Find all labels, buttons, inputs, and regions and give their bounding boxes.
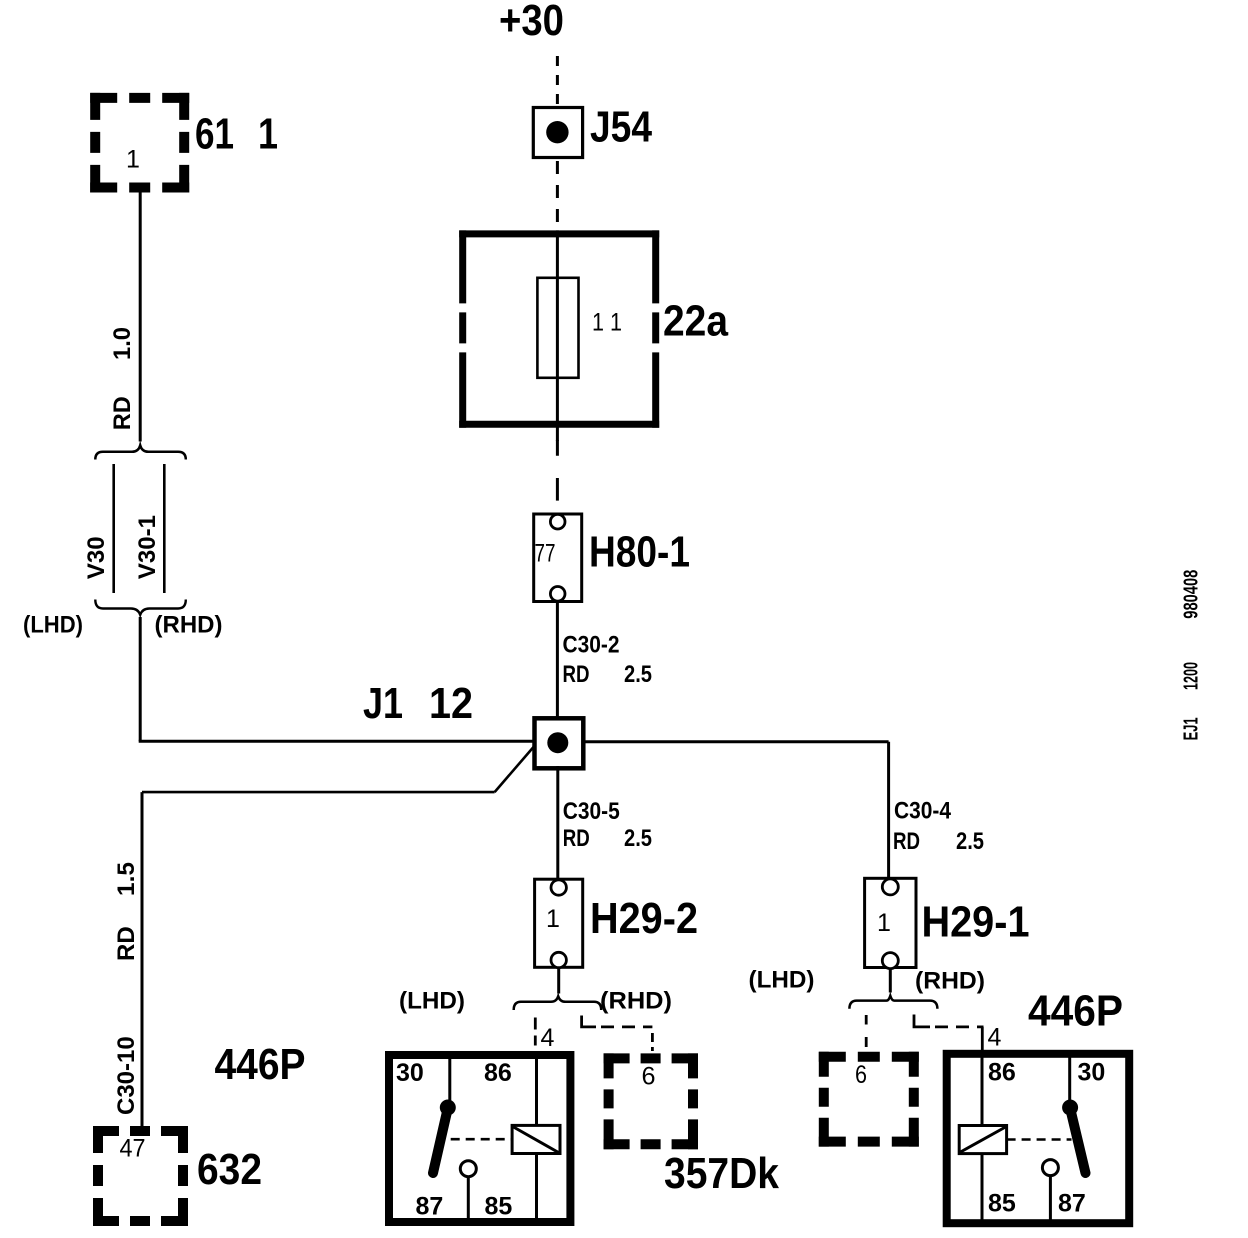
variant line V30 bbox=[112, 464, 115, 593]
wire down to 632 bbox=[141, 792, 144, 1126]
relay left coil lead top bbox=[535, 1053, 538, 1125]
svg-text:446P: 446P bbox=[1028, 987, 1123, 1036]
svg-text:4: 4 bbox=[541, 1024, 555, 1052]
wire horizontal J1 to right bbox=[583, 740, 889, 743]
wire dashed into left relay pin 4 bbox=[534, 1018, 537, 1051]
relay right contact circle bbox=[1042, 1160, 1058, 1176]
svg-text:1: 1 bbox=[877, 909, 891, 937]
label J1 12 bbox=[363, 679, 473, 728]
component 6 box left (357Dk, dashed) bbox=[604, 1053, 698, 1149]
svg-text:(RHD): (RHD) bbox=[155, 612, 223, 639]
svg-text:22a: 22a bbox=[663, 297, 728, 346]
fuse element 11 bbox=[537, 278, 578, 378]
svg-text:1200: 1200 bbox=[1181, 662, 1203, 690]
svg-text:H29-1: H29-1 bbox=[922, 898, 1030, 947]
wire label RD 2.5 bbox=[563, 661, 653, 688]
relay left pin labels bbox=[396, 1059, 512, 1220]
svg-text:47: 47 bbox=[120, 1135, 146, 1163]
svg-text:87: 87 bbox=[1058, 1190, 1086, 1218]
connector H29-2 bbox=[535, 879, 583, 968]
junction J1 box bbox=[535, 718, 584, 768]
svg-text:85: 85 bbox=[485, 1193, 513, 1221]
label V30-1 (rotated) bbox=[134, 515, 161, 579]
relay right coil lead bottom bbox=[981, 1154, 984, 1224]
component 632 dashed box bbox=[93, 1126, 188, 1226]
connector H29-1 bbox=[865, 878, 916, 968]
relay right pin 87 lead bbox=[1049, 1176, 1052, 1224]
svg-text:C30-2: C30-2 bbox=[563, 632, 620, 659]
wire down to H29-1 bbox=[887, 742, 890, 879]
relay left actuation dashed bbox=[451, 1138, 512, 1141]
svg-text:1.5: 1.5 bbox=[113, 862, 140, 896]
pin 4 right bbox=[988, 1024, 1002, 1052]
relay left pin 30 lead bbox=[448, 1053, 451, 1103]
wire dashed from +30 to J54 bbox=[556, 56, 559, 108]
relay left coil lead bottom bbox=[535, 1154, 538, 1225]
svg-text:77: 77 bbox=[535, 540, 556, 568]
wire dashed from 22a to H80-1 bbox=[556, 440, 559, 514]
svg-text:+30: +30 bbox=[499, 0, 564, 45]
label H80-1 bbox=[589, 528, 690, 577]
pin 4 left bbox=[541, 1024, 555, 1052]
component 61 dashed box bbox=[90, 93, 189, 193]
svg-text:V30: V30 bbox=[83, 536, 110, 579]
svg-text:1: 1 bbox=[126, 146, 140, 174]
svg-text:RD: RD bbox=[563, 661, 590, 688]
svg-text:12: 12 bbox=[429, 679, 473, 728]
svg-text:(LHD): (LHD) bbox=[23, 612, 83, 639]
label (LHD) right bbox=[749, 967, 815, 994]
svg-text:86: 86 bbox=[988, 1059, 1016, 1087]
label (RHD) right bbox=[915, 968, 985, 995]
relay right pin labels bbox=[988, 1059, 1105, 1218]
svg-text:RD: RD bbox=[113, 926, 140, 961]
brace down (variant merge bottom) bbox=[95, 600, 186, 615]
relay left contact circle bbox=[460, 1161, 476, 1177]
svg-text:1 1: 1 1 bbox=[592, 308, 622, 336]
label H29-1 bbox=[922, 898, 1030, 947]
svg-text:446P: 446P bbox=[215, 1040, 306, 1089]
label 357Dk bbox=[664, 1149, 779, 1198]
svg-text:980408: 980408 bbox=[1181, 570, 1203, 619]
svg-text:C30-10: C30-10 bbox=[113, 1036, 140, 1115]
wire label C30-5 bbox=[563, 798, 620, 825]
svg-text:61: 61 bbox=[195, 110, 234, 159]
svg-text:C30-5: C30-5 bbox=[563, 798, 620, 825]
relay right coil bbox=[959, 1126, 1006, 1154]
relay left switch arm bbox=[433, 1100, 456, 1174]
svg-text:2.5: 2.5 bbox=[624, 661, 652, 688]
wire label 1.0 (rotated) bbox=[109, 327, 136, 360]
label (RHD) left column bbox=[155, 612, 223, 639]
label (LHD) left column bbox=[23, 612, 83, 639]
junction J54 box bbox=[533, 108, 582, 158]
svg-text:(LHD): (LHD) bbox=[749, 967, 815, 994]
pin 1 of H29-2 bbox=[546, 905, 560, 933]
label H29-2 bbox=[590, 894, 698, 943]
relay 446P right box bbox=[947, 1054, 1129, 1223]
label V30 (rotated) bbox=[83, 536, 110, 579]
svg-text:30: 30 bbox=[1078, 1059, 1106, 1087]
svg-text:357Dk: 357Dk bbox=[664, 1149, 779, 1198]
svg-text:J54: J54 bbox=[590, 103, 652, 152]
svg-text:85: 85 bbox=[988, 1190, 1016, 1218]
svg-text:(RHD): (RHD) bbox=[600, 988, 672, 1015]
brace up (variant split top) bbox=[95, 445, 186, 459]
pin 1 of H29-1 bbox=[877, 909, 891, 937]
wire horizontal to J1 bbox=[139, 740, 535, 743]
wire label C30-4 bbox=[894, 797, 952, 824]
svg-text:H29-2: H29-2 bbox=[590, 894, 698, 943]
wire dashed from J54 to fuse box 22a bbox=[556, 161, 559, 230]
wire H80-1 to J1 bbox=[556, 602, 559, 719]
wire through J1 vertical bbox=[556, 766, 559, 879]
wire label RD 2.5 center bbox=[563, 825, 652, 852]
margin text 980408 (rotated) bbox=[1181, 570, 1203, 619]
label 446P left bbox=[215, 1040, 306, 1089]
relay right pin 30 lead bbox=[1068, 1052, 1071, 1103]
relay 446P left box bbox=[389, 1055, 570, 1222]
svg-text:632: 632 bbox=[197, 1145, 262, 1194]
svg-text:J1: J1 bbox=[363, 679, 403, 728]
svg-text:(RHD): (RHD) bbox=[915, 968, 985, 995]
wire label RD (rotated) bbox=[109, 396, 136, 430]
wire horizontal second bbox=[142, 791, 495, 794]
svg-text:87: 87 bbox=[416, 1193, 444, 1221]
svg-text:86: 86 bbox=[484, 1059, 512, 1087]
svg-text:C30-4: C30-4 bbox=[894, 797, 952, 824]
relay right switch arm bbox=[1062, 1100, 1085, 1174]
wire dashed into right 6 box bbox=[865, 1015, 868, 1052]
wire dashed L to 357Dk box bbox=[582, 1016, 653, 1052]
wire label 1.5 (rotated) bbox=[113, 862, 140, 896]
pin 6 of right box bbox=[855, 1061, 867, 1089]
svg-text:RD: RD bbox=[893, 828, 920, 855]
relay left pin 87 lead bbox=[467, 1177, 470, 1224]
margin text EJ1 (rotated) bbox=[1181, 717, 1203, 740]
svg-text:RD: RD bbox=[109, 396, 136, 430]
pin label 1 1 bbox=[592, 308, 622, 336]
pin 77 bbox=[535, 540, 556, 568]
svg-text:1: 1 bbox=[258, 110, 278, 159]
svg-text:H80-1: H80-1 bbox=[589, 528, 690, 577]
connector H80-1 bbox=[534, 514, 582, 602]
wire label C30-2 bbox=[563, 632, 620, 659]
brace under H29-2 bbox=[514, 996, 602, 1010]
svg-text:6: 6 bbox=[855, 1061, 867, 1089]
svg-text:30: 30 bbox=[396, 1059, 424, 1087]
label J54 bbox=[590, 103, 652, 152]
brace under H29-1 bbox=[849, 996, 937, 1009]
svg-text:2.5: 2.5 bbox=[624, 825, 652, 852]
margin text 1200 (rotated) bbox=[1181, 662, 1203, 690]
wire 61 down to brace bbox=[139, 193, 142, 442]
svg-text:1: 1 bbox=[546, 905, 560, 933]
relay right actuation dashed bbox=[1007, 1138, 1072, 1141]
wire label C30-10 (rotated) bbox=[113, 1036, 140, 1115]
wire H29-1 to brace bbox=[889, 968, 892, 993]
component 6 box right (dashed) bbox=[819, 1052, 919, 1147]
relay right coil lead top bbox=[981, 1052, 984, 1126]
pin 47 of 632 bbox=[120, 1135, 146, 1163]
label 632 bbox=[197, 1145, 262, 1194]
pin 6 of left box bbox=[642, 1063, 656, 1091]
fuse holder box 22a (dashed thick frame) bbox=[459, 230, 659, 427]
wire label RD (rotated) bbox=[113, 926, 140, 961]
label 22a bbox=[663, 297, 728, 346]
svg-text:V30-1: V30-1 bbox=[134, 515, 161, 579]
label 61 1 bbox=[195, 110, 278, 159]
variant line V30-1 bbox=[163, 464, 166, 593]
svg-text:EJ1: EJ1 bbox=[1181, 717, 1203, 740]
wire diagonal from J1 bbox=[495, 746, 535, 793]
svg-text:1.0: 1.0 bbox=[109, 327, 136, 360]
pin 1 of 61 bbox=[126, 146, 140, 174]
relay left coil bbox=[512, 1125, 560, 1153]
svg-text:2.5: 2.5 bbox=[956, 828, 984, 855]
svg-text:4: 4 bbox=[988, 1024, 1002, 1052]
wire through fuse bbox=[556, 230, 559, 441]
wire dashed L into right relay pin 4 bbox=[914, 1015, 984, 1051]
wire label RD 2.5 right bbox=[893, 828, 984, 855]
wire brace to corner bbox=[139, 617, 142, 741]
net +30 label bbox=[499, 0, 564, 45]
svg-text:(LHD): (LHD) bbox=[399, 988, 465, 1015]
wire H29-2 to brace bbox=[557, 967, 560, 993]
label 446P right bbox=[1028, 987, 1123, 1036]
label (LHD) mid bbox=[399, 988, 465, 1015]
label (RHD) mid bbox=[600, 988, 672, 1015]
svg-text:6: 6 bbox=[642, 1063, 656, 1091]
svg-text:RD: RD bbox=[563, 825, 590, 852]
